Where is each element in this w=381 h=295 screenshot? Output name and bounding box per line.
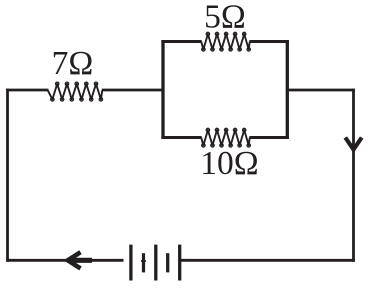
wire: box bottom-left segment [161, 136, 201, 139]
label 5Ω [204, 0, 246, 36]
resistor R3 10Ω [201, 128, 250, 147]
wire: top-left horizontal (battery top lead to R1) [6, 89, 48, 92]
wire: bottom left segment (left corner to battery) [6, 259, 123, 262]
wire: box to right side [286, 89, 355, 92]
wire: box bottom-right segment [249, 136, 289, 139]
wire: left vertical side [6, 89, 9, 262]
resistor R1 7Ω [48, 82, 103, 101]
battery B1: plate 4 (short) [166, 253, 169, 272]
battery B1: plate 3 (long) [154, 245, 157, 281]
current arrow on right wire (pointing down) [345, 138, 361, 150]
svg-text:10Ω: 10Ω [200, 145, 258, 182]
wire: box top-right segment [249, 40, 289, 43]
svg-text:5Ω: 5Ω [204, 0, 246, 36]
wire: right vertical side [352, 89, 355, 262]
wire: parallel box right edge [286, 40, 289, 139]
battery B1: plate 5 (long) [178, 245, 181, 281]
current arrow on bottom wire (pointing left) [67, 252, 92, 268]
wire: box top-left segment [161, 40, 201, 43]
svg-text:7Ω: 7Ω [52, 45, 94, 82]
wire: parallel box left edge [161, 40, 164, 139]
label 7Ω [52, 45, 94, 82]
label 10Ω [200, 145, 258, 182]
battery B1: plate 1 (long) [129, 245, 132, 281]
resistor R2 5Ω [201, 32, 250, 51]
wire: bottom right segment (battery to right corner) [181, 259, 355, 262]
wire: R1 to parallel box [102, 89, 164, 92]
battery B1: plate 2 (short) [141, 253, 146, 272]
